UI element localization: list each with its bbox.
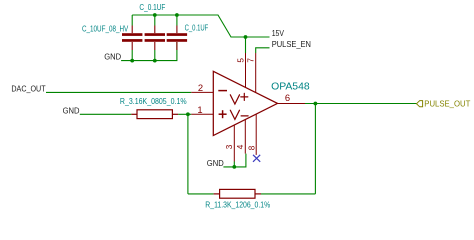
- no-connect X on pin 8: [253, 155, 260, 162]
- svg-text:6: 6: [285, 92, 290, 103]
- svg-text:8: 8: [248, 145, 257, 150]
- op-amp minus input mark: [218, 90, 227, 92]
- svg-text:15V: 15V: [272, 28, 285, 38]
- svg-text:R_11.3K_1206_0.1%: R_11.3K_1206_0.1%: [205, 201, 270, 210]
- junction GND at pin 3: [232, 165, 236, 169]
- wire bottom rail of capacitor bank: [121, 42, 177, 61]
- capacitor C1 C_10UF_08_HV: [122, 26, 142, 51]
- wire R1 to pin 1: [178, 113, 191, 115]
- svg-text:7: 7: [247, 58, 256, 63]
- op-amp pin name V-: [230, 110, 248, 119]
- wire feedback bottom left: [188, 193, 214, 195]
- capacitor C3 C_0.1UF: [167, 26, 187, 51]
- wire feedback right vertical: [314, 104, 316, 194]
- svg-text:DAC_OUT: DAC_OUT: [11, 83, 45, 93]
- wire cap C2 bottom lead: [154, 50, 156, 61]
- hierarchical label arrow PULSE_OUT: [417, 101, 423, 107]
- svg-text:3: 3: [225, 144, 234, 149]
- svg-text:GND: GND: [207, 158, 224, 168]
- wire output to PULSE_OUT: [305, 103, 417, 105]
- wire DAC_OUT to pin 2: [46, 91, 191, 93]
- op-amp plus input mark: [219, 110, 227, 118]
- op-amp U1 OPA548 triangle: [213, 71, 277, 135]
- wire 15V rail stub: [245, 37, 247, 53]
- svg-text:C_0.1UF: C_0.1UF: [139, 3, 165, 12]
- op-amp pin 8 line: [255, 114, 257, 155]
- junction bottom rail at C2: [153, 59, 157, 63]
- svg-text:GND: GND: [104, 52, 121, 62]
- wire cap C2 top lead: [154, 15, 156, 26]
- resistor R1 R_3.16K_0805_0.1%: [131, 110, 178, 119]
- op-amp pin 6 line: [278, 103, 306, 105]
- svg-text:GND: GND: [63, 106, 80, 116]
- wire GND to R1: [80, 113, 132, 115]
- op-amp pin 2 line: [191, 91, 213, 93]
- junction feedback node A: [186, 112, 190, 116]
- wire feedback left vertical: [187, 114, 189, 194]
- op-amp pin 4 line: [244, 120, 246, 154]
- svg-text:C_10UF_08_HV: C_10UF_08_HV: [82, 25, 129, 34]
- wire cap C3 top lead: [176, 15, 178, 26]
- wire feedback bottom right: [261, 193, 315, 195]
- svg-text:2: 2: [198, 82, 203, 93]
- svg-text:OPA548: OPA548: [271, 81, 310, 92]
- wire cap C1 bottom lead: [131, 50, 133, 61]
- svg-text:5: 5: [236, 58, 245, 63]
- wire GND to pins 3 and 4: [223, 154, 246, 167]
- junction top rail at C2: [153, 13, 157, 17]
- wire top rail of capacitor bank: [132, 15, 269, 37]
- svg-text:C_0.1UF: C_0.1UF: [185, 24, 209, 33]
- op-amp pin 1 line: [191, 113, 213, 115]
- svg-text:PULSE_OUT: PULSE_OUT: [424, 99, 470, 109]
- wire PULSE_EN: [256, 48, 270, 53]
- junction bottom rail at C1: [130, 59, 134, 63]
- op-amp pin 5 line: [245, 53, 247, 88]
- capacitor C2 C_0.1UF: [145, 26, 165, 51]
- op-amp pin 3 line: [233, 125, 235, 161]
- junction 15V node: [244, 35, 248, 39]
- op-amp pin name V+: [230, 93, 248, 104]
- svg-text:4: 4: [236, 144, 245, 149]
- junction top rail at C3: [175, 13, 179, 17]
- svg-text:R_3.16K_0805_0.1%: R_3.16K_0805_0.1%: [120, 97, 187, 106]
- resistor R2 R_11.3K_1206_0.1%: [214, 189, 261, 198]
- junction output node: [314, 102, 318, 106]
- op-amp pin 7 line: [255, 53, 257, 93]
- svg-text:PULSE_EN: PULSE_EN: [272, 39, 311, 49]
- svg-text:1: 1: [197, 104, 202, 115]
- wire pin 3 stub: [233, 162, 235, 167]
- wire cap C1 top lead: [131, 15, 133, 26]
